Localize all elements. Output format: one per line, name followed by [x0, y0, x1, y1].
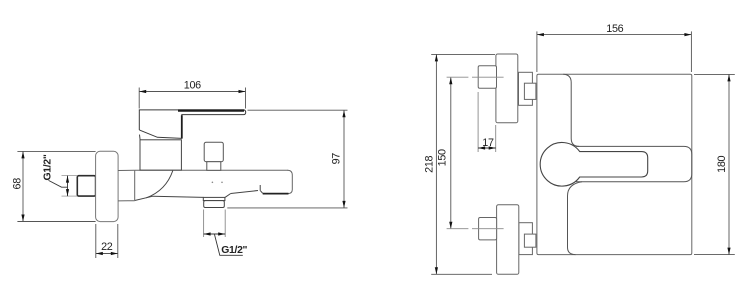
- top nut: [478, 66, 496, 88]
- wire: outlet dim extension right: [224, 210, 226, 238]
- dimension 180 line: [728, 74, 730, 254]
- svg-text:68: 68: [12, 178, 24, 190]
- dimension 68 line: [22, 151, 24, 221]
- spout body outline: [135, 170, 293, 200]
- svg-text:218: 218: [424, 155, 436, 172]
- top connector step A: [519, 72, 533, 105]
- wire: dim 156 extension right: [690, 31, 692, 72]
- wire: dim 97 extension top: [248, 109, 348, 111]
- spout bottom thick edge: [263, 193, 289, 195]
- wire: dim 22 extension right: [117, 224, 119, 258]
- connector body to wall: [118, 169, 135, 171]
- handle grip: [139, 110, 245, 138]
- dimension outlet G1/2: [204, 233, 226, 235]
- wire: dim 218 extension top: [431, 53, 495, 55]
- lever keyhole (circle + bar): [540, 143, 648, 187]
- dimension 106 line: [139, 91, 245, 93]
- diverter knob neck: [207, 162, 221, 171]
- front panel upper contour: [563, 74, 579, 146]
- spout underside right: [231, 191, 258, 194]
- wire: dim 180 extension bottom: [694, 254, 735, 256]
- svg-text:156: 156: [606, 23, 623, 35]
- shower outlet flange: [203, 197, 225, 200]
- top escutcheon: [496, 54, 518, 123]
- svg-text:97: 97: [331, 153, 343, 165]
- wire: top nut center line: [447, 76, 504, 78]
- dimension 218 line: [435, 54, 437, 274]
- diverter knob: [204, 142, 223, 162]
- wall flange: [96, 151, 119, 221]
- wire: dim 17 extension right: [495, 125, 497, 152]
- wire: pipe dim extension top: [62, 175, 78, 177]
- cartridge left lip: [139, 135, 142, 140]
- dimension G1/2 thread vertical: [67, 176, 69, 197]
- lever recess outline: [576, 146, 692, 181]
- pipe nipple: [77, 176, 95, 196]
- top connector step B: [524, 83, 536, 99]
- wire: bottom nut center line: [447, 228, 504, 230]
- wire: dim 17 extension left: [477, 92, 479, 152]
- wire: dim 97 extension bottom: [227, 207, 347, 209]
- bottom nut: [479, 218, 497, 240]
- cartridge housing: [140, 140, 181, 170]
- bottom connector step A: [519, 223, 533, 255]
- dimension 22 line: [96, 253, 118, 255]
- grip right thick edge: [181, 115, 183, 138]
- faucet body front view: [537, 74, 692, 254]
- front panel lower contour: [568, 182, 583, 255]
- wire: outlet dim extension left: [203, 210, 205, 238]
- dimension 97 line: [343, 110, 345, 208]
- wire: dim 180 extension top: [694, 73, 735, 75]
- spout tip front tick: [259, 185, 261, 191]
- wire: dim 68 extension bottom: [17, 221, 95, 223]
- dimension 150 line: [450, 77, 452, 229]
- svg-text:150: 150: [437, 149, 449, 166]
- wire: leader G1/2 bottom: [215, 235, 243, 256]
- wire: dim 156 extension left: [536, 31, 538, 72]
- wire: pipe dim extension bottom: [62, 195, 78, 197]
- wire: dim 106 extension line left: [138, 88, 140, 109]
- spout underside left: [135, 196, 204, 200]
- svg-text:180: 180: [716, 155, 728, 172]
- wire: dim 68 extension top: [17, 150, 95, 152]
- wire: dim 106 extension line right: [245, 88, 247, 109]
- dimension 156 line: [537, 34, 692, 36]
- svg-text:G1/2": G1/2": [221, 245, 247, 256]
- svg-text:G1/2": G1/2": [43, 154, 54, 180]
- node: spec dots under spout: [212, 182, 214, 184]
- wire: dim 22 extension left: [95, 224, 97, 258]
- bottom escutcheon: [497, 205, 519, 275]
- lever arm thick top edge: [178, 109, 244, 111]
- svg-text:22: 22: [101, 241, 113, 253]
- svg-text:106: 106: [184, 79, 201, 91]
- wire: leader G1/2 left: [49, 180, 68, 187]
- dimension 17 line: [478, 147, 496, 149]
- shower outlet body: [204, 201, 225, 208]
- body left edge: [134, 170, 136, 200]
- bottom connector step B: [524, 234, 536, 247]
- inner concave curve: [146, 171, 173, 198]
- svg-text:17: 17: [482, 137, 494, 149]
- wire: dim 218 extension bottom: [431, 273, 492, 275]
